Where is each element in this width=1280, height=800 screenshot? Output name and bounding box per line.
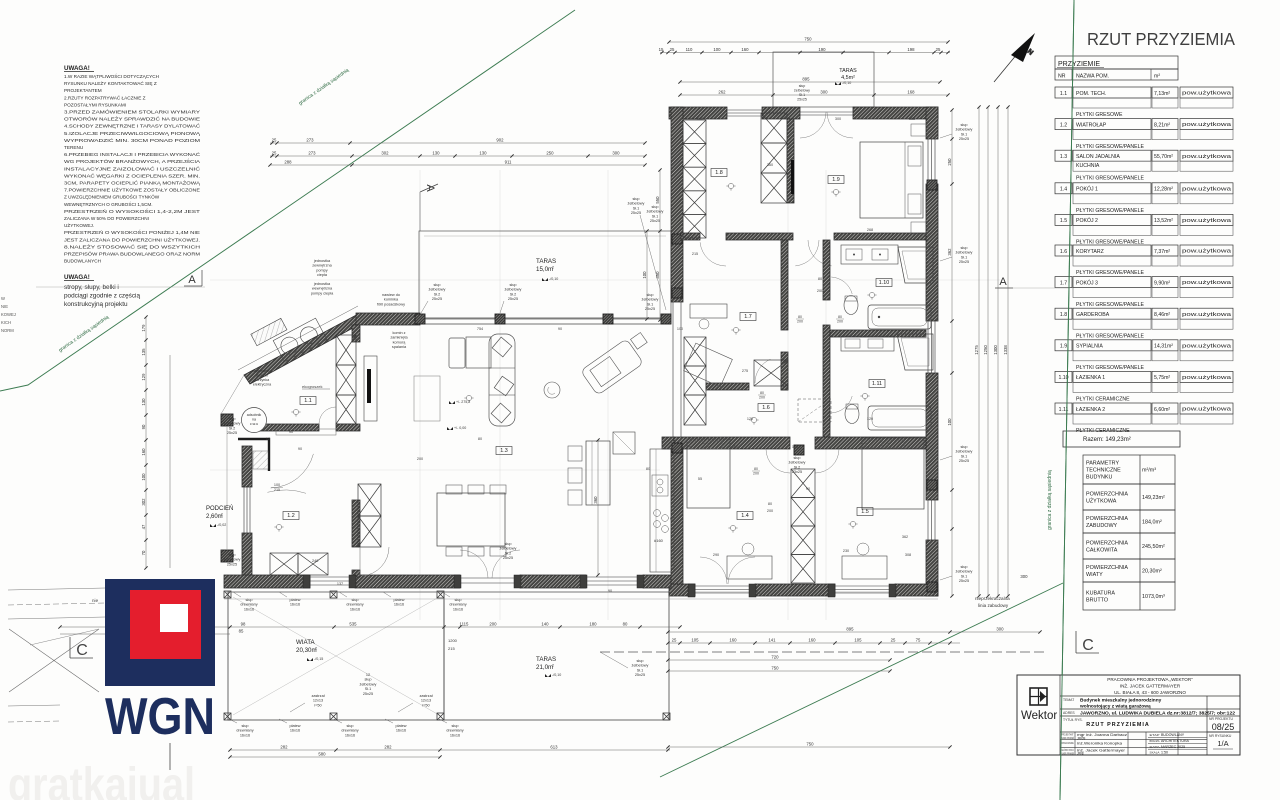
svg-text:zamknięta: zamknięta [390, 336, 408, 340]
room label 1.9 [828, 176, 844, 184]
svg-text:20,30m: 20,30m [296, 647, 317, 654]
green boundary line bottom diagonal [660, 583, 1063, 777]
svg-text:550: 550 [655, 196, 660, 204]
svg-text:Sł.1: Sł.1 [652, 214, 659, 218]
wiata divider line [443, 592, 445, 720]
svg-text:zastrzał: zastrzał [419, 694, 432, 698]
svg-text:WYPROWADZIĆ MIN. 30CM PONAD PO: WYPROWADZIĆ MIN. 30CM PONAD POZIOM [64, 137, 200, 143]
svg-text:Sł.1: Sł.1 [961, 454, 968, 458]
svg-text:5.IZOLACJE PRZECIWWILGOCIOWĄ P: 5.IZOLACJE PRZECIWWILGOCIOWĄ PIONOWĄ [64, 131, 201, 136]
svg-text:12,28m²: 12,28m² [1154, 187, 1173, 193]
svg-text:PRZEPISÓW PRAWA BUDOWLANEGO OR: PRZEPISÓW PRAWA BUDOWLANEGO ORAZ NORM [64, 251, 200, 257]
svg-text:1.6: 1.6 [762, 405, 770, 411]
svg-text:ARCHITEKTURA: ARCHITEKTURA [1161, 739, 1190, 743]
fridge [613, 432, 635, 454]
terrace columns [415, 314, 425, 324]
svg-text:80: 80 [798, 315, 802, 319]
terrace TARAS 4,5 outline top [773, 52, 874, 107]
svg-text:198: 198 [907, 47, 915, 52]
svg-text:BUDYNKU: BUDYNKU [1086, 475, 1112, 481]
tv bar 1.9 [791, 160, 794, 194]
svg-text:Budynek mieszkalny jednorodzin: Budynek mieszkalny jednorodzinny [1080, 698, 1162, 704]
table row 1.11 [1055, 403, 1072, 414]
svg-text:POWIERZCHNIA: POWIERZCHNIA [1086, 565, 1128, 571]
door bottom living to taras [460, 577, 520, 579]
svg-text:nie: nie [92, 598, 99, 603]
svg-text:25x25: 25x25 [959, 260, 969, 264]
svg-text:302: 302 [141, 498, 146, 506]
svg-text:na: na [252, 418, 256, 422]
svg-text:RZUT PRZYZIEMIA: RZUT PRZYZIEMIA [1087, 29, 1235, 49]
entrance wind wall [238, 439, 269, 471]
svg-text:+/- 0,00: +/- 0,00 [454, 426, 466, 430]
dim bottom 580 [230, 756, 440, 758]
svg-text:KUCHNIA: KUCHNIA [1076, 163, 1100, 169]
svg-text:200: 200 [797, 319, 803, 323]
svg-text:70: 70 [141, 550, 146, 555]
svg-text:4.SCHODY ZEWNĘTRZNE I TARASY D: 4.SCHODY ZEWNĘTRZNE I TARASY DYLATOWAĆ [64, 123, 201, 129]
svg-text:130: 130 [141, 398, 146, 406]
svg-text:UWAGA!: UWAGA! [64, 274, 90, 281]
svg-text:168: 168 [907, 90, 915, 95]
room label 1.2 [283, 512, 299, 520]
svg-text:307: 307 [732, 445, 738, 449]
wall top living [356, 313, 420, 325]
svg-text:1.2: 1.2 [287, 513, 295, 519]
svg-text:żelbetowy: żelbetowy [956, 128, 973, 132]
svg-text:-/0,15: -/0,15 [314, 657, 323, 661]
svg-text:7,37m²: 7,37m² [1154, 249, 1170, 255]
svg-text:słup: słup [961, 123, 968, 127]
svg-text:pompy: pompy [316, 268, 327, 272]
room label 1.5 [857, 508, 873, 516]
wiata outline [228, 592, 444, 720]
svg-text:Sł.1: Sł.1 [961, 574, 968, 578]
svg-text:Razem: 149,23m²: Razem: 149,23m² [1083, 437, 1131, 443]
table row 1.10 [1055, 371, 1072, 382]
svg-text:902: 902 [496, 138, 504, 143]
desk 1.7 [690, 304, 727, 318]
door 1.1 [319, 407, 336, 424]
svg-text:płatew: płatew [396, 724, 407, 728]
svg-text:#160: #160 [654, 538, 664, 543]
svg-text:20,30m²: 20,30m² [1142, 569, 1162, 575]
svg-text:jednostka: jednostka [313, 259, 331, 263]
dim top wing row 262 [680, 94, 948, 96]
svg-text:6.PRZEBIEG INSTALACJI I PRZEBI: 6.PRZEBIEG INSTALACJI I PRZEBICIA WYKONA… [64, 151, 201, 157]
dim bottom right row 895 [668, 631, 1040, 633]
svg-text:słup: słup [647, 293, 654, 297]
svg-text:137: 137 [337, 582, 343, 586]
dim bottom left rows [60, 626, 680, 628]
svg-text:słup: słup [652, 205, 659, 209]
svg-text:drewniany: drewniany [240, 603, 257, 607]
cooktop circles [654, 510, 661, 517]
svg-text:BRUTTO: BRUTTO [1086, 598, 1108, 604]
svg-text:141: 141 [768, 638, 776, 643]
svg-text:282: 282 [384, 745, 392, 750]
svg-text:9,90m²: 9,90m² [1154, 280, 1170, 286]
svg-text:PŁYTKI GRESOWE/PANELE: PŁYTKI GRESOWE/PANELE [1076, 333, 1144, 339]
svg-text:słup: słup [246, 598, 253, 602]
dim bottom 750a [668, 670, 890, 672]
svg-text:638: 638 [754, 591, 760, 595]
svg-text:80: 80 [760, 391, 764, 395]
svg-text:1.5: 1.5 [861, 509, 869, 515]
svg-text:290: 290 [713, 553, 719, 557]
toilet 1.11 [845, 405, 859, 424]
svg-text:GARDEROBA: GARDEROBA [1076, 312, 1110, 318]
svg-text:300: 300 [835, 117, 841, 121]
svg-text:GŁÓWNY PROJ.: GŁÓWNY PROJ. [1062, 747, 1075, 752]
svg-text:żelbetowy: żelbetowy [628, 202, 645, 206]
door arcs wall A [795, 240, 819, 266]
svg-text:25: 25 [891, 638, 896, 643]
window bottom living [310, 576, 355, 578]
svg-text:25: 25 [936, 47, 941, 52]
svg-text:895: 895 [846, 627, 854, 632]
adsobnik circle [242, 408, 267, 433]
svg-text:720: 720 [771, 655, 779, 660]
svg-text:słup: słup [229, 553, 236, 557]
svg-text:słup: słup [794, 456, 801, 460]
dim top wing row 895 [680, 81, 940, 83]
dim top row 2 [270, 155, 645, 157]
table row 1.4 [1055, 183, 1072, 194]
svg-text:wewnętrzna: wewnętrzna [312, 287, 333, 291]
svg-text:SALON JADALNIA: SALON JADALNIA [1076, 154, 1120, 160]
svg-text:25: 25 [272, 138, 277, 143]
room label 1.6 [758, 404, 774, 412]
svg-text:6,60m²: 6,60m² [1154, 407, 1170, 413]
svg-text:RZUT PRZYZIEMIA: RZUT PRZYZIEMIA [1086, 722, 1150, 728]
svg-text:12: 12 [266, 437, 270, 441]
wall A below bedrooms [681, 233, 700, 240]
dim top wing row 750 [669, 41, 948, 43]
svg-text:POM. TECH.: POM. TECH. [1076, 91, 1106, 97]
svg-text:PŁYTKI GRESOWE/PANELE: PŁYTKI GRESOWE/PANELE [1076, 302, 1144, 308]
svg-text:308: 308 [905, 553, 911, 557]
svg-text:ETAP: ETAP [1150, 733, 1160, 737]
svg-text:PARAMETRY: PARAMETRY [1086, 461, 1119, 467]
svg-text:INŻ. JACEK GATTERMAYER: INŻ. JACEK GATTERMAYER [1120, 683, 1181, 689]
svg-text:200: 200 [759, 395, 765, 399]
svg-text:16x16: 16x16 [244, 607, 254, 611]
svg-text:1.9: 1.9 [1060, 344, 1067, 350]
table row 1.9 [1055, 340, 1072, 351]
svg-text:200: 200 [817, 289, 823, 293]
terrace edge line with columns [420, 317, 671, 319]
svg-text:płatew: płatew [290, 724, 301, 728]
svg-text:1.7: 1.7 [1060, 280, 1067, 286]
svg-text:100: 100 [713, 47, 721, 52]
projection guide lines [210, 170, 1000, 620]
svg-text:90: 90 [784, 307, 788, 311]
svg-text:750: 750 [806, 742, 814, 747]
svg-text:linia zabudowy: linia zabudowy [978, 603, 1009, 608]
svg-text:100: 100 [947, 418, 952, 426]
WGN logo [105, 579, 215, 746]
svg-text:90: 90 [141, 424, 146, 429]
svg-text:25: 25 [670, 47, 675, 52]
svg-text:słup: słup [352, 598, 359, 602]
svg-text:pow.użytkowa: pow.użytkowa [1182, 218, 1231, 224]
table row 1.7 [1055, 277, 1072, 288]
svg-text:NUMER UPRAWNIEŃ: NUMER UPRAWNIEŃ [1062, 736, 1075, 740]
svg-text:25x25: 25x25 [631, 211, 641, 215]
svg-text:UWAGA!: UWAGA! [64, 65, 90, 72]
svg-text:-/0,10: -/0,10 [552, 673, 561, 677]
svg-text:362: 362 [902, 535, 908, 539]
table razem row [1063, 431, 1180, 447]
svg-text:184,0m²: 184,0m² [1142, 520, 1162, 526]
svg-text:słup: słup [242, 724, 249, 728]
lamp by sofa [464, 395, 473, 402]
road crossing X [9, 629, 99, 692]
svg-text:nieprzekraczalna: nieprzekraczalna [975, 596, 1010, 601]
svg-text:23x25: 23x25 [792, 470, 802, 474]
north arrow [994, 33, 1035, 82]
svg-text:25x25: 25x25 [503, 556, 513, 560]
svg-text:ŁAZIENKA 2: ŁAZIENKA 2 [1076, 407, 1105, 413]
svg-text:OTWORÓW NALEŻY SPRAWDZIĆ NA BU: OTWORÓW NALEŻY SPRAWDZIĆ NA BUDOWIE [64, 116, 200, 122]
bed 1.4 [687, 439, 730, 508]
svg-text:żelbetowy: żelbetowy [505, 288, 522, 292]
svg-text:KOWEJ: KOWEJ [1, 312, 16, 317]
svg-text:12x13: 12x13 [313, 699, 323, 703]
window jamb blocks [303, 575, 310, 588]
svg-text:300: 300 [996, 627, 1004, 632]
svg-text:120: 120 [867, 417, 873, 421]
wall corridor left of bathrooms [781, 240, 788, 330]
svg-text:i=50: i=50 [314, 703, 321, 707]
svg-text:TECHNICZNE: TECHNICZNE [1086, 468, 1121, 474]
table row 1.6 [1055, 245, 1072, 256]
svg-text:WEWNĘTRZNYCH O GRUBOŚCI 1,5CM.: WEWNĘTRZNYCH O GRUBOŚCI 1,5CM. [64, 200, 153, 207]
svg-text:25x25: 25x25 [508, 297, 518, 301]
svg-text:90: 90 [608, 589, 612, 593]
window left wall [243, 487, 245, 533]
svg-text:16x16: 16x16 [345, 733, 355, 737]
svg-text:75: 75 [916, 638, 921, 643]
svg-text:90: 90 [806, 487, 810, 491]
window top wing 1 [727, 109, 762, 111]
door arc bathroom 1.11 [831, 396, 852, 413]
svg-text:TERENU: TERENU [64, 145, 84, 150]
svg-text:nawiew do: nawiew do [382, 293, 400, 297]
svg-text:NR PROJEKTU: NR PROJEKTU [1209, 717, 1233, 721]
room label 1.7 [740, 313, 756, 321]
corridor closet xbox [754, 360, 788, 386]
svg-text:1.6: 1.6 [1060, 249, 1067, 255]
svg-text:5,75m²: 5,75m² [1154, 375, 1170, 381]
svg-text:25x25: 25x25 [959, 579, 969, 583]
svg-text:282: 282 [280, 745, 288, 750]
svg-text:1:50: 1:50 [1161, 751, 1168, 755]
svg-text:160: 160 [141, 448, 146, 456]
svg-text:Sł.2: Sł.2 [794, 465, 801, 469]
svg-text:ekogroszek: ekogroszek [302, 384, 322, 389]
svg-text:25x25: 25x25 [959, 459, 969, 463]
svg-text:12: 12 [366, 673, 370, 677]
svg-text:613: 613 [550, 745, 558, 750]
bathroom 1.11 vanity [841, 336, 894, 351]
svg-text:1.5: 1.5 [1060, 218, 1067, 224]
green boundary line right overlay [1060, 0, 1074, 800]
svg-text:1200: 1200 [448, 638, 458, 643]
svg-text:zastrzał: zastrzał [311, 694, 324, 698]
svg-text:NORM: NORM [1, 328, 14, 333]
svg-text:skrzynka: skrzynka [255, 378, 269, 382]
svg-text:Sł.2: Sł.2 [505, 551, 512, 555]
svg-text:25x25: 25x25 [227, 431, 237, 435]
svg-text:120: 120 [792, 445, 798, 449]
svg-text:WG PROJEKTÓW BRANŻOWYCH, A PRZ: WG PROJEKTÓW BRANŻOWYCH, A PRZEJŚCIA [64, 157, 201, 164]
wardrobe 1.8 left strip [683, 120, 706, 144]
svg-text:16x16: 16x16 [350, 607, 360, 611]
svg-text:łazienki: łazienki [256, 374, 268, 378]
svg-text:250: 250 [546, 151, 554, 156]
svg-text:21,0m: 21,0m [536, 664, 553, 671]
svg-text:135: 135 [141, 348, 146, 356]
svg-text:pow.użytkowa: pow.użytkowa [1182, 154, 1231, 160]
svg-text:DATA: DATA [1150, 745, 1160, 749]
svg-text:300: 300 [612, 151, 620, 156]
svg-text:NR: NR [1058, 74, 1066, 80]
svg-text:UL. BIAŁA 8, 43 - 600 JAWORZNO: UL. BIAŁA 8, 43 - 600 JAWORZNO [1114, 690, 1186, 695]
svg-text:OPRACOWANIE:: OPRACOWANIE: [1062, 741, 1075, 745]
dim vertical right wing inner [951, 110, 953, 596]
svg-text:POWIERZCHNIA: POWIERZCHNIA [1086, 492, 1128, 498]
svg-text:215: 215 [448, 646, 455, 651]
chimney xbox 1.1 [336, 335, 356, 365]
svg-text:Z UWZGLĘDNIENIEM GRUBOŚCI TYNK: Z UWZGLĘDNIENIEM GRUBOŚCI TYNKÓW [64, 193, 160, 200]
svg-text:360: 360 [767, 163, 773, 167]
bathtub 1.11 [868, 406, 931, 430]
svg-text:drewniany: drewniany [236, 729, 253, 733]
table row 1.8 [1055, 308, 1072, 319]
svg-text:pow.użytkowa: pow.użytkowa [1182, 312, 1231, 318]
svg-text:15,0m: 15,0m [536, 266, 553, 273]
svg-text:ŁAZIENKA 1: ŁAZIENKA 1 [1076, 375, 1105, 381]
svg-text:KORYTARZ: KORYTARZ [1076, 249, 1104, 255]
bathtub 1.10 [868, 305, 931, 329]
door arc bathroom 1.10 [831, 277, 852, 294]
wall bathrooms left [823, 240, 830, 300]
svg-text:słup: słup [637, 659, 644, 663]
svg-text:+/- 275,2: +/- 275,2 [456, 400, 470, 404]
svg-text:Sł.1: Sł.1 [961, 132, 968, 136]
svg-text:350: 350 [655, 271, 660, 279]
wall right wing bottom [669, 584, 695, 596]
svg-text:55: 55 [698, 477, 702, 481]
svg-text:2.RZUTY ROZPATRYWAĆ ŁACZNIE Z: 2.RZUTY ROZPATRYWAĆ ŁACZNIE Z [64, 94, 146, 100]
dim bottom left 282 [230, 749, 670, 751]
svg-text:190: 190 [818, 47, 826, 52]
svg-text:PRZYZIEMIE: PRZYZIEMIE [1058, 61, 1100, 68]
svg-text:273: 273 [306, 138, 314, 143]
svg-text:80: 80 [838, 315, 842, 319]
armchair rotated [580, 330, 655, 395]
svg-text:1.8: 1.8 [715, 170, 723, 176]
svg-text:WIATA: WIATA [296, 639, 316, 646]
svg-text:słup: słup [510, 283, 517, 287]
svg-text:konstrukcyjną projektu: konstrukcyjną projektu [64, 301, 128, 308]
svg-text:PRZESTRZEŃ O WYSOKOŚCI 1,4-2,2: PRZESTRZEŃ O WYSOKOŚCI 1,4-2,2M JEST [64, 207, 200, 214]
svg-text:NAZWA POM.: NAZWA POM. [1076, 74, 1109, 80]
svg-text:25x25: 25x25 [227, 562, 237, 566]
svg-text:-/0,10: -/0,10 [842, 81, 851, 85]
svg-text:JR/09: JR/09 [1077, 736, 1086, 740]
svg-text:754: 754 [477, 327, 483, 331]
wall diagonal podcien [244, 313, 364, 384]
svg-text:105: 105 [854, 638, 862, 643]
svg-text:3CM, PARAPETY OCIEPLIĆ PIANKĄ: 3CM, PARAPETY OCIEPLIĆ PIANKĄ MONTAŻOWĄ [64, 180, 201, 186]
room label 1.3 [496, 447, 512, 455]
svg-text:C: C [76, 642, 88, 659]
svg-text:żelbetowy: żelbetowy [642, 298, 659, 302]
svg-text:PŁYTKI GRESOWE: PŁYTKI GRESOWE [1076, 112, 1123, 118]
svg-text:drewniany: drewniany [346, 603, 363, 607]
svg-text:200: 200 [489, 622, 497, 627]
svg-text:268: 268 [867, 228, 873, 232]
svg-text:180: 180 [589, 622, 597, 627]
svg-text:25x25: 25x25 [650, 219, 660, 223]
svg-text:25x25: 25x25 [797, 98, 807, 102]
svg-text:żelbetowy: żelbetowy [956, 570, 973, 574]
svg-text:pow.użytkowa: pow.użytkowa [1182, 186, 1231, 192]
svg-text:adsobnik: adsobnik [247, 413, 262, 417]
svg-text:140: 140 [541, 622, 549, 627]
svg-text:inż.Weronika Konopka: inż.Weronika Konopka [1077, 742, 1123, 746]
wardrobe strip 1.4 1.5 [791, 469, 815, 498]
svg-text:PŁYTKI GRESOWE/PANELE: PŁYTKI GRESOWE/PANELE [1076, 144, 1144, 150]
svg-text:1.3: 1.3 [500, 448, 508, 454]
svg-text:UŻYTKOWEJ.: UŻYTKOWEJ. [64, 222, 94, 228]
wing wall columns [672, 234, 682, 244]
svg-text:750: 750 [804, 37, 812, 42]
wardrobe 1.8 top strip [761, 113, 787, 143]
svg-text:25: 25 [272, 151, 277, 156]
svg-text:PRACOWNIA PROJEKTOWA „WEKTOR”: PRACOWNIA PROJEKTOWA „WEKTOR” [1107, 677, 1193, 682]
svg-text:535: 535 [349, 622, 357, 627]
svg-text:POKÓJ 2: POKÓJ 2 [1076, 217, 1098, 224]
svg-text:80: 80 [623, 622, 628, 627]
svg-text:żelbetowy: żelbetowy [647, 210, 664, 214]
svg-text:300: 300 [820, 90, 828, 95]
svg-text:pow.użytkowa: pow.użytkowa [1182, 343, 1231, 349]
svg-text:słup: słup [961, 445, 968, 449]
wektor logo symbol [1030, 688, 1047, 705]
svg-text:25x25: 25x25 [432, 297, 442, 301]
svg-text:Sł.1: Sł.1 [365, 687, 372, 691]
svg-text:żelbetowy: żelbetowy [794, 89, 810, 93]
svg-text:stropy, słupy, belki i: stropy, słupy, belki i [64, 284, 119, 291]
svg-text:16x16: 16x16 [240, 733, 250, 737]
dim top wing row detail [660, 52, 950, 54]
svg-text:16x16: 16x16 [450, 733, 460, 737]
footing line under building [224, 591, 938, 593]
wall right wing top [669, 107, 727, 119]
svg-text:7,13m²: 7,13m² [1154, 91, 1170, 97]
svg-text:słup: słup [452, 724, 459, 728]
svg-text:C: C [1082, 637, 1094, 654]
kitchen counter [650, 449, 674, 572]
dim top row 3 [270, 164, 645, 166]
svg-text:słup: słup [455, 598, 462, 602]
svg-text:pow.użytkowa: pow.użytkowa [1182, 122, 1231, 128]
svg-text:PŁYTKI GRESOWE/PANELE: PŁYTKI GRESOWE/PANELE [1076, 365, 1144, 371]
